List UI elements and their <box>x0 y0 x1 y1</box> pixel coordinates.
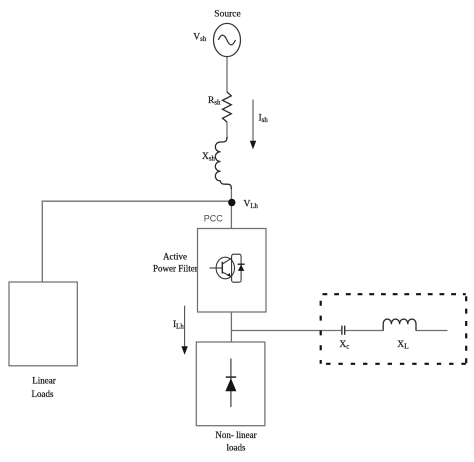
svg-text:Non- linear: Non- linear <box>215 430 256 440</box>
svg-text:XL: XL <box>397 340 409 350</box>
svg-text:loads: loads <box>227 443 246 453</box>
svg-text:Linear: Linear <box>32 376 55 386</box>
svg-text:Power Filter: Power Filter <box>153 264 198 274</box>
svg-text:Source: Source <box>214 10 240 20</box>
svg-text:Loads: Loads <box>32 389 54 399</box>
svg-text:Active: Active <box>163 251 187 261</box>
svg-text:PCC: PCC <box>204 214 224 224</box>
